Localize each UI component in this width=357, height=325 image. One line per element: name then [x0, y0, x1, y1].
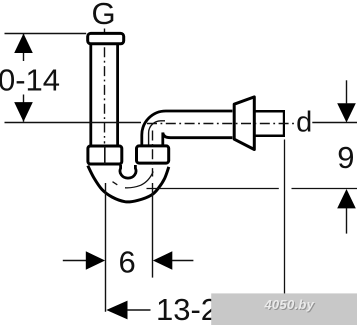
outlet pipe end cap	[283, 110, 285, 137]
trap bottom reference line	[147, 188, 279, 190]
inlet pipe left wall	[89, 45, 92, 146]
arrow down	[14, 102, 33, 122]
svg-text:6: 6	[118, 245, 135, 280]
nut left (inlet union nut)	[88, 146, 122, 164]
arrow down to axis	[337, 103, 356, 122]
svg-text:4050.by: 4050.by	[264, 297, 315, 312]
nut right (outlet union nut)	[137, 146, 169, 163]
nut left facet line	[104, 146, 106, 164]
svg-text:G: G	[92, 0, 116, 31]
cone fitting	[234, 97, 254, 150]
flange at top of inlet	[88, 33, 124, 43]
outlet pipe top wall right of cone	[254, 110, 284, 113]
dimension 13-2x	[106, 301, 127, 320]
svg-text:d: d	[296, 107, 312, 139]
outlet pipe bottom wall right of cone	[254, 134, 284, 137]
dimension line d/9 top	[312, 122, 357, 124]
elbow highlight arc	[149, 121, 165, 146]
extension line pipe end vertical	[284, 140, 286, 299]
elbow outer wall	[142, 111, 233, 147]
arrow up to trap bottom line	[337, 189, 356, 208]
extension line bottom (outlet axis level)	[5, 122, 142, 124]
dimension line 0-14	[23, 34, 25, 62]
extension line outlet axis	[152, 183, 154, 278]
trap bowl outer	[88, 166, 169, 202]
svg-text:0-14: 0-14	[0, 63, 60, 98]
arrow up	[14, 34, 33, 54]
extension line top (flange level)	[5, 33, 87, 35]
wire centerline outlet down-leg	[152, 131, 154, 177]
wire centerline inlet pipe	[104, 29, 106, 144]
wire centerline outlet horizontal	[147, 123, 296, 125]
extension line inlet axis	[105, 183, 107, 312]
bowl highlight dash left	[113, 182, 118, 185]
elbow inner wall / pipe bottom	[163, 133, 233, 148]
inlet pipe right wall	[116, 45, 119, 146]
bowl inner highlight arc	[125, 172, 153, 188]
dimension 6	[63, 260, 86, 262]
dip tube stub between nuts	[120, 165, 136, 178]
svg-text:9: 9	[337, 140, 354, 175]
watermark band	[211, 293, 357, 325]
